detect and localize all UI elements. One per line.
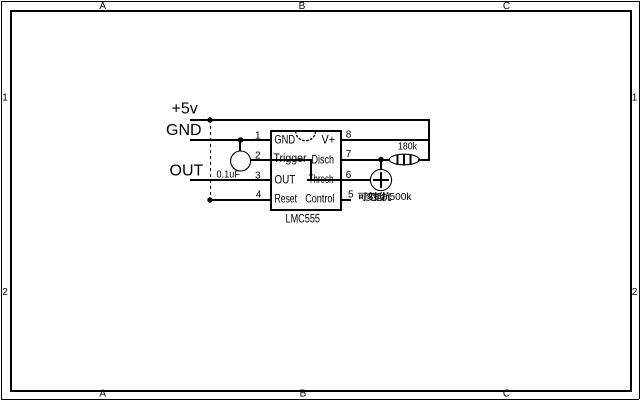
svg-text:Reset: Reset (275, 192, 298, 206)
svg-text:OUT: OUT (274, 173, 296, 187)
svg-text:C: C (503, 389, 510, 400)
svg-text:7: 7 (346, 149, 352, 160)
svg-text:A: A (99, 1, 106, 12)
svg-text:Disch: Disch (312, 153, 335, 167)
svg-text:0.1uF: 0.1uF (217, 169, 241, 180)
svg-text:V+: V+ (322, 133, 336, 147)
svg-text:B: B (299, 1, 306, 12)
svg-text:6: 6 (346, 170, 352, 181)
svg-text:B: B (300, 389, 307, 400)
svg-text:C: C (503, 1, 510, 12)
svg-text:2: 2 (632, 287, 638, 298)
svg-text:1: 1 (632, 93, 638, 104)
svg-text:1: 1 (2, 93, 8, 104)
svg-text:2: 2 (2, 287, 8, 298)
svg-text:2: 2 (255, 151, 261, 162)
svg-text:Trigger: Trigger (274, 151, 307, 165)
svg-text:A: A (99, 389, 106, 400)
svg-text:LMC555: LMC555 (286, 212, 321, 226)
svg-text:OUT: OUT (170, 162, 204, 179)
svg-text:180k: 180k (398, 141, 418, 152)
svg-text:Thresh: Thresh (309, 172, 334, 186)
svg-text:GND: GND (166, 122, 202, 139)
svg-text:+5v: +5v (172, 101, 198, 118)
svg-text:3: 3 (255, 171, 261, 182)
svg-text:4: 4 (256, 190, 262, 201)
svg-text:8: 8 (346, 130, 352, 141)
svg-text:5: 5 (348, 190, 354, 201)
svg-text:GND: GND (274, 133, 295, 147)
svg-text:Control: Control (305, 192, 334, 206)
svg-text:500k: 500k (390, 192, 413, 203)
svg-text:1: 1 (255, 131, 261, 142)
